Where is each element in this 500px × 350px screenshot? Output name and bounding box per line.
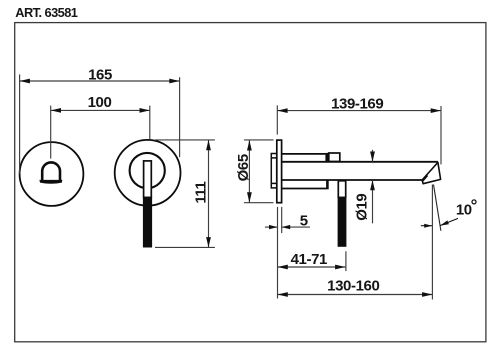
lever lower (solid): [143, 197, 152, 247]
mixer inner ring: [130, 153, 165, 188]
barrel bottom groove: [326, 180, 329, 189]
side lever lower (solid): [338, 197, 347, 246]
wall plate: [277, 140, 282, 203]
barrel top groove: [325, 153, 328, 162]
barrel bottom line: [282, 188, 327, 190]
10 degree reference vertical line: [431, 185, 433, 300]
progressive knob escutcheon circle: [20, 142, 84, 206]
dimension D65: [244, 140, 274, 203]
svg-text:5: 5: [300, 213, 308, 230]
dimension 100: [51, 106, 150, 159]
svg-text:Ø65: Ø65: [235, 154, 252, 181]
svg-text:ART. 63581: ART. 63581: [15, 5, 78, 20]
dimension D19: [372, 150, 374, 224]
svg-text:10: 10: [456, 202, 472, 219]
dimension 165: [20, 74, 180, 174]
svg-text:165: 165: [88, 66, 112, 83]
dimension 111: [155, 140, 215, 248]
10 degree right arrow with leader: [440, 218, 458, 225]
lever upper (outlined): [144, 161, 152, 198]
svg-text:Ø19: Ø19: [354, 194, 371, 221]
10 degree left arrow: [421, 225, 432, 227]
mixer escutcheon circle: [115, 140, 181, 206]
svg-text:139-169: 139-169: [331, 96, 383, 113]
side lever upper (outlined): [338, 181, 345, 198]
spout tip bevel line: [423, 176, 428, 182]
spout tip: [422, 162, 441, 183]
dimension 41-71: [278, 251, 346, 271]
dimension 5: [265, 207, 310, 299]
svg-text:111: 111: [193, 181, 210, 203]
in-wall body: [271, 154, 276, 188]
svg-text:41-71: 41-71: [291, 251, 327, 268]
barrel end cap: [329, 153, 340, 162]
svg-text:130-160: 130-160: [327, 278, 379, 295]
progressive knob handle: [42, 162, 60, 180]
10 degree slanted line: [434, 185, 441, 231]
dimension 130-160: [278, 294, 433, 296]
spout top line: [282, 161, 438, 163]
spout bottom line: [282, 179, 422, 181]
dimension 139-169: [277, 105, 441, 164]
progressive knob base band: [39, 180, 62, 184]
svg-text:100: 100: [88, 94, 112, 111]
barrel top line: [282, 153, 325, 155]
